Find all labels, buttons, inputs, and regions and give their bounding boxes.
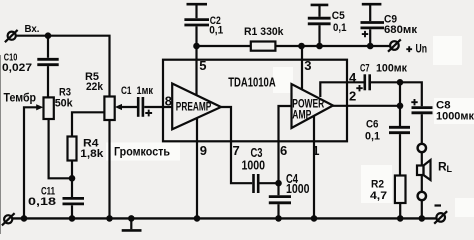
svg-text:PREAMP: PREAMP <box>176 100 212 114</box>
svg-text:50k: 50k <box>55 97 74 109</box>
pin 7 wire <box>221 107 252 183</box>
capacitor C9 <box>361 4 385 46</box>
svg-text:8: 8 <box>165 93 172 108</box>
capacitor C8 <box>412 108 433 144</box>
plus C1 <box>145 110 152 117</box>
svg-text:TDA1010A: TDA1010A <box>228 75 276 90</box>
wire connector to rail <box>421 200 423 218</box>
scan white patches (decorative background tone) <box>106 36 474 217</box>
svg-text:1000: 1000 <box>286 181 310 196</box>
terminal input Vx <box>5 30 18 42</box>
svg-text:C6: C6 <box>366 119 379 131</box>
svg-text:7: 7 <box>233 143 240 158</box>
capacitor C4 <box>269 197 291 219</box>
svg-text:6: 6 <box>280 143 287 158</box>
svg-text:5: 5 <box>199 58 206 73</box>
node input junction <box>45 32 52 39</box>
svg-text:1мк: 1мк <box>137 85 154 97</box>
node out bottom <box>397 103 404 110</box>
connector top circle <box>418 144 426 152</box>
resistor R1 body <box>251 42 276 51</box>
svg-text:Громкость: Громкость <box>114 144 170 158</box>
ground chassis symbol <box>130 218 132 229</box>
node R3/R4/C11 junction <box>69 175 76 182</box>
capacitor C2 <box>184 4 209 46</box>
potentiometer R3 wiper from Tembr line <box>24 107 38 218</box>
node pin3/R1 <box>298 43 305 50</box>
wire R3 bottom to junction <box>49 119 72 178</box>
wire R5 bottom <box>108 120 110 218</box>
svg-text:9: 9 <box>200 143 207 158</box>
svg-text:0,1: 0,1 <box>365 131 380 143</box>
capacitor C3 <box>254 174 279 193</box>
svg-text:C5: C5 <box>332 10 345 22</box>
node C5 <box>316 43 323 50</box>
svg-text:AMP: AMP <box>292 108 311 122</box>
svg-text:1000: 1000 <box>242 158 266 173</box>
svg-text:0,1: 0,1 <box>209 25 223 37</box>
wire top rail <box>197 45 391 47</box>
potentiometer R5 body <box>104 97 114 121</box>
svg-text:C1: C1 <box>121 85 132 97</box>
resistor R4 leads <box>72 112 104 136</box>
svg-text:Un: Un <box>416 42 428 56</box>
svg-text:R1 330k: R1 330k <box>244 26 284 38</box>
wire to speaker <box>421 152 423 165</box>
terminal ground left <box>2 213 15 225</box>
wire speaker to connector <box>421 175 423 192</box>
node C9 <box>367 43 374 50</box>
potentiometer R3 body <box>44 97 54 119</box>
op-amp power amp triangle <box>292 84 334 128</box>
IC U1 box TDA1010A <box>163 60 347 142</box>
svg-text:Тембр: Тембр <box>4 91 37 105</box>
label minus <box>435 204 442 206</box>
pin 9 wire <box>196 118 198 218</box>
svg-text:4,7: 4,7 <box>370 190 387 202</box>
wire bottom ground rail <box>12 217 437 219</box>
terminal ground right <box>434 211 447 224</box>
speaker RL <box>417 166 424 176</box>
capacitor C5 <box>308 5 331 46</box>
svg-text:1000мк: 1000мк <box>436 111 474 123</box>
svg-text:4: 4 <box>349 70 357 85</box>
svg-text:100мк: 100мк <box>376 62 407 74</box>
op-amp preamp triangle <box>172 84 221 130</box>
svg-text:22k: 22k <box>86 81 104 93</box>
capacitor C10 <box>37 36 58 98</box>
potentiometer R5 wiper arrow <box>121 106 138 108</box>
resistor R2 body <box>395 176 406 204</box>
svg-text:0,18: 0,18 <box>28 196 56 208</box>
capacitor C7 <box>365 74 400 90</box>
wire input to R5 top <box>16 36 110 97</box>
node pin5/C2 <box>193 43 200 50</box>
pin 4 wire <box>320 82 364 97</box>
wire output node vertical <box>399 82 401 126</box>
pin 6 wire <box>279 106 292 195</box>
capacitor C6 <box>389 127 410 175</box>
wire R2 bottom <box>399 203 401 218</box>
plus C9 <box>362 31 368 37</box>
plus C7 <box>356 85 362 91</box>
label + Un <box>406 46 412 52</box>
capacitor C1 <box>138 97 172 117</box>
svg-text:3: 3 <box>304 58 311 73</box>
svg-text:1,8k: 1,8k <box>80 148 104 160</box>
svg-text:0,1: 0,1 <box>333 22 347 34</box>
svg-text:2: 2 <box>349 88 356 103</box>
wire to C8 <box>400 82 422 106</box>
svg-text:1: 1 <box>312 143 319 158</box>
pin 5 wire <box>195 46 197 95</box>
pin 1 wire <box>313 116 315 219</box>
svg-text:R2: R2 <box>371 178 384 190</box>
node rail junctions <box>21 215 28 222</box>
svg-text:Вх.: Вх. <box>25 24 40 35</box>
resistor R4 body <box>68 137 77 161</box>
node out top <box>397 79 404 86</box>
svg-text:680мк: 680мк <box>384 24 418 36</box>
capacitor C11 <box>63 178 85 218</box>
pin 3 wire <box>301 46 303 90</box>
terminal +Un <box>388 39 401 51</box>
pin 2 wire <box>333 105 400 107</box>
svg-text:0,027: 0,027 <box>2 62 32 74</box>
plus C8 <box>411 99 417 105</box>
node C3/C4 junction <box>275 180 282 187</box>
svg-text:L: L <box>447 164 453 174</box>
connector bottom circle <box>418 192 426 200</box>
svg-text:C7: C7 <box>360 62 370 74</box>
